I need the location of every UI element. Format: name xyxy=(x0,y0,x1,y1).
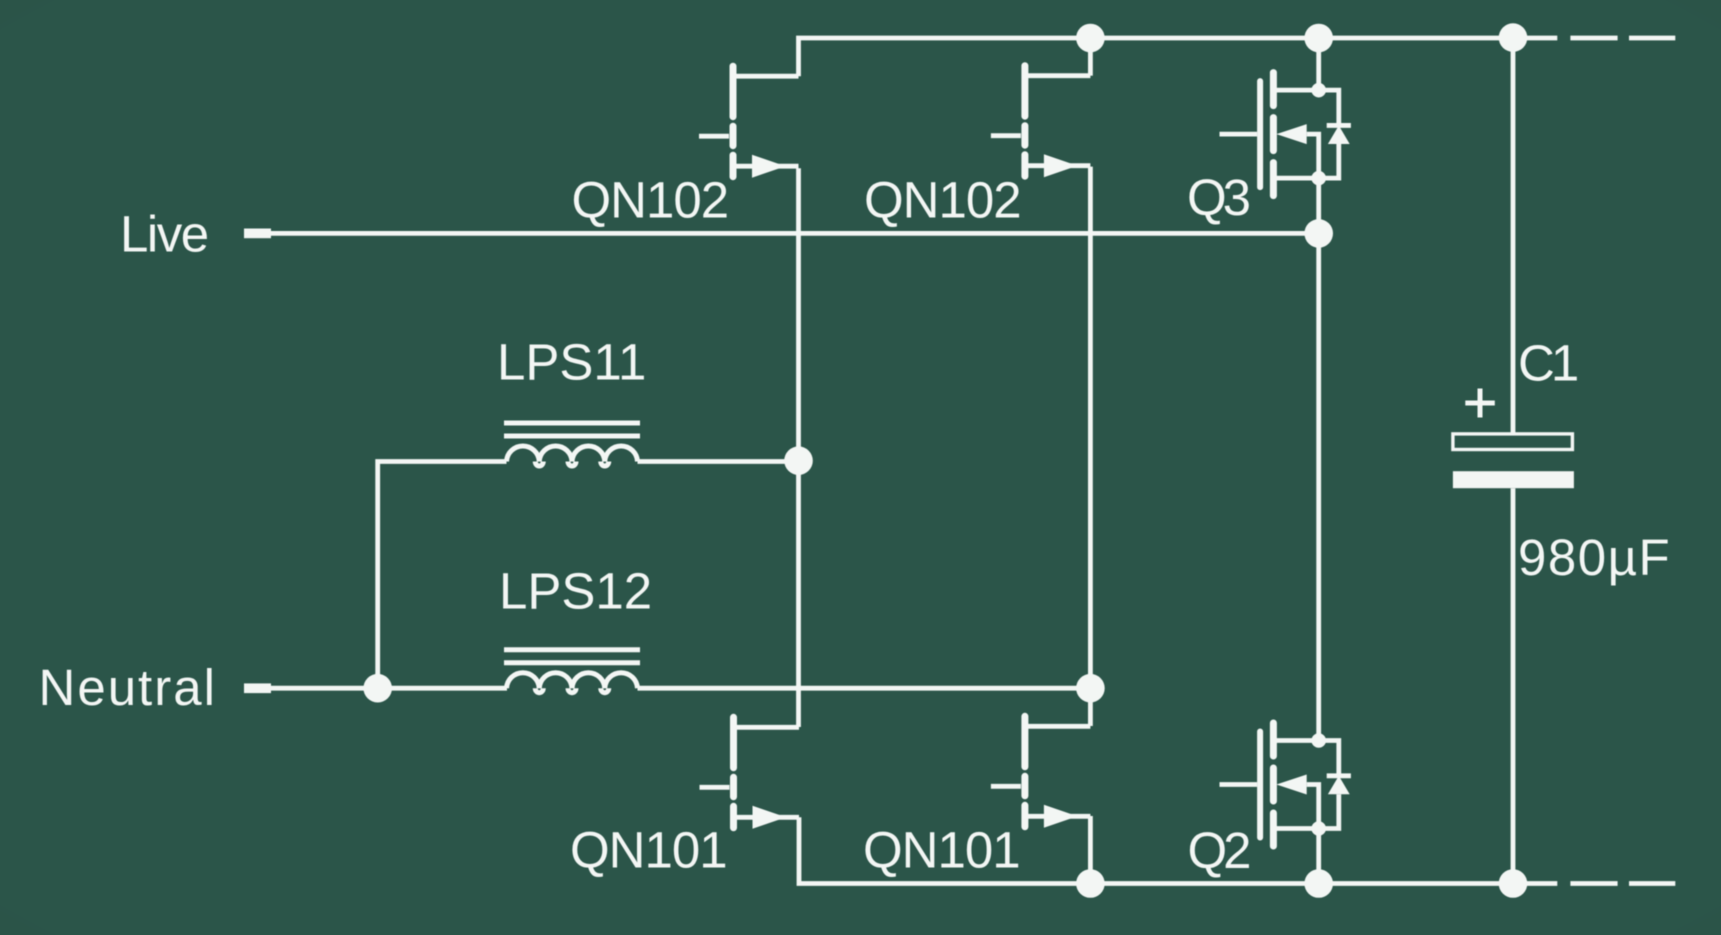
wire Neutral stub xyxy=(244,683,271,693)
junction node Neutral / right QN102 source xyxy=(1076,674,1105,703)
wire Q3 drain stub xyxy=(1316,38,1321,90)
wire top bus dashed continuation xyxy=(1570,36,1675,41)
transistor Q2 xyxy=(1220,723,1351,846)
wire Live stub xyxy=(244,229,271,239)
wire Neutral line right of LPS12 xyxy=(638,686,1091,691)
wire C1 bottom lead xyxy=(1511,488,1516,883)
wire LPS11 right lead xyxy=(638,459,799,464)
wire LPS11 branch left lead xyxy=(378,462,507,689)
junction node LPS11 right xyxy=(784,446,813,475)
transistor QN101 left xyxy=(700,717,800,829)
junction node top bus / Q3 drain xyxy=(1304,24,1333,53)
wire Neutral line left of LPS12 xyxy=(270,686,507,691)
capacitor C1 xyxy=(1453,389,1574,489)
junction node bottom bus / Q2 source xyxy=(1304,869,1333,898)
wire right QN102 drain riser xyxy=(1088,38,1093,76)
wire Q2 source drop xyxy=(1316,830,1321,884)
inductor LPS12 xyxy=(504,650,640,693)
junction node bottom bus / C1 xyxy=(1499,869,1528,898)
junction node top bus / right QN102 xyxy=(1076,24,1105,53)
wire left mid vertical x=799 xyxy=(796,168,801,727)
wire C1 top lead xyxy=(1511,38,1516,434)
junction node Live / Q3 source xyxy=(1304,219,1333,248)
junction node top bus / C1 xyxy=(1499,23,1528,52)
wire top bus with left QN102 drain riser xyxy=(799,38,1558,76)
inductor LPS11 xyxy=(504,423,640,466)
wire Live line xyxy=(270,231,1319,236)
wire left QN101 source drop and bottom bus xyxy=(799,817,1557,883)
junction node Neutral / LPS11 branch xyxy=(363,674,392,703)
wire right mid vertical x=1090 xyxy=(1088,167,1093,726)
transistor QN102 right xyxy=(991,66,1091,178)
transistor QN102 left xyxy=(699,66,799,178)
junction node bottom bus / right QN101 xyxy=(1076,869,1105,898)
wire Q3 source to Q2 drain vertical xyxy=(1316,178,1321,739)
wire right QN101 source drop xyxy=(1088,816,1093,884)
wire bottom bus dashed continuation xyxy=(1570,881,1675,886)
transistor Q3 xyxy=(1220,73,1351,196)
transistor QN101 right xyxy=(991,716,1091,828)
